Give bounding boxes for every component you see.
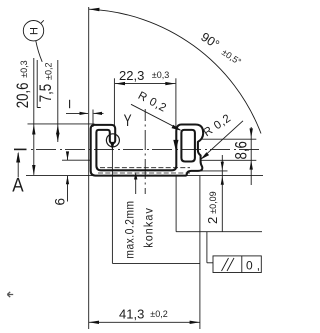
arrow 22,3 right [165, 82, 175, 85]
wire 22,3 right extension x=175.9 [175, 78, 177, 145]
symbol parallelism // [222, 258, 229, 271]
dimension 8,6 dim line x=251.2 [250, 127, 252, 185]
svg-text:90°: 90° [198, 30, 221, 52]
arrow 7,5 bottom (down) [56, 133, 59, 142]
arrow R0,2 second leader [200, 152, 209, 159]
svg-text:2: 2 [205, 217, 220, 224]
wire section arrow A stem [17, 153, 19, 178]
wire extension x=93 for dim 1 [92, 110, 94, 128]
node Y datum circle [106, 134, 119, 147]
svg-text:A: A [12, 174, 24, 195]
svg-text:41,3: 41,3 [119, 306, 144, 321]
arrow dim 1 left (pointing right) [80, 112, 89, 115]
symbol section plane A short line [14, 148, 27, 150]
wire tolerance leader verticals [175, 176, 177, 232]
wire R0,2 first leader [131, 104, 180, 130]
svg-text:max.0.2mm: max.0.2mm [124, 200, 137, 258]
wire tolerance leader drop to frame [206, 232, 208, 263]
node horizontal centerline (dash-dot) [14, 148, 259, 150]
svg-text:R 0,2: R 0,2 [136, 90, 169, 115]
note 7,5 overline bracket [37, 60, 41, 108]
tolerance frame [213, 256, 261, 273]
node bottom extension line y=175.6 [26, 175, 263, 177]
label 1 stroke [69, 100, 71, 108]
wire H leader curve [36, 41, 42, 62]
svg-text:±0,2: ±0,2 [150, 309, 167, 319]
dimension 1 dim line segments y=113.4 [66, 112, 88, 114]
wire tolerance leader horizontal y=231.7 [176, 231, 262, 233]
dimension 22,3 dim line [115, 83, 175, 85]
arrow 8,6 bottom (up) [250, 160, 253, 169]
arrowheads (filled) [16, 8, 253, 324]
svg-text:8,6: 8,6 [233, 141, 251, 159]
wire long left extension line x=88.7 [88, 7, 90, 329]
svg-text:konkav: konkav [143, 207, 156, 248]
right hook inner slot [181, 130, 195, 162]
svg-text:±0,3: ±0,3 [152, 70, 169, 80]
node Y datum leader stem x=112.4 [111, 144, 113, 263]
profile outer contour [91, 125, 204, 176]
dimension 2 dim line x=222.3 [221, 155, 223, 232]
arrow section A (up) [16, 152, 20, 163]
arrow 20,6 top (up) [32, 124, 35, 134]
arrow dim 6 bottom (up) [66, 176, 69, 185]
node top extension line y=123.9 [28, 123, 95, 125]
svg-text:0: 0 [246, 258, 253, 272]
svg-text:7,5: 7,5 [37, 84, 56, 102]
arrow dim 6 top (down) [66, 151, 69, 160]
svg-text:±0,09: ±0,09 [208, 191, 218, 213]
node vertical profile centerline (dash-dot) x=145.2 [144, 109, 146, 194]
svg-text:,: , [257, 258, 260, 272]
dimension 8,6 extension stubs [202, 138, 256, 140]
wire 22,3 left extension x=114.4 [113, 78, 115, 126]
svg-text:H: H [29, 27, 41, 35]
dimension 7,5 dim line [57, 60, 59, 142]
note max konkav leader stem [135, 177, 137, 195]
arrow dim 1 right (pointing left) [93, 112, 102, 115]
label H circle balloon [23, 21, 43, 41]
svg-text:22,3: 22,3 [119, 68, 144, 83]
dimension 41,3 dim line y=323.9 [89, 321, 200, 323]
svg-text:20,6: 20,6 [14, 83, 33, 109]
arrow Y datum (down) [110, 142, 114, 151]
svg-text:±0,2: ±0,2 [44, 63, 54, 80]
arrow 7,5 top (up) [56, 125, 59, 135]
wire R0,2 second leader [201, 121, 243, 159]
dimension 20,6 dim line [33, 58, 35, 175]
web auxiliary dashed line y=167.8 (max konkav zone) [100, 167, 190, 169]
arrow 90deg arc end (left) [89, 8, 100, 11]
arrow max konkav leader (up) [134, 172, 137, 180]
dimension 2 top reference line y=170.9 [201, 170, 228, 172]
profile outline thick [91, 125, 204, 176]
dimension 6 lines [62, 159, 91, 161]
arrow 20,6 bottom (down) [32, 165, 35, 175]
dimension 90 degree arc [89, 9, 261, 133]
arrow 8,6 top (down) [250, 128, 253, 137]
arrow 41,3 left [89, 321, 99, 324]
arrow 41,3 right [190, 321, 200, 324]
arrow big on 22,3 right extension (down) [173, 140, 178, 151]
svg-text:Y: Y [124, 112, 132, 130]
icon gray back arrow [7, 292, 13, 297]
arrow 22,3 left [115, 82, 125, 85]
svg-text:±0,3: ±0,3 [19, 60, 29, 77]
svg-text:R 0,2: R 0,2 [201, 112, 233, 139]
svg-text:±0,5°: ±0,5° [220, 47, 243, 67]
arrow dim 2 bottom (up) [221, 176, 224, 185]
arrow R0,2 first leader [172, 125, 182, 131]
svg-text:6: 6 [53, 198, 68, 206]
arrow dim 2 top (down) [221, 162, 224, 171]
web auxiliary dashed line y=173 (max konkav zone) [98, 172, 190, 174]
